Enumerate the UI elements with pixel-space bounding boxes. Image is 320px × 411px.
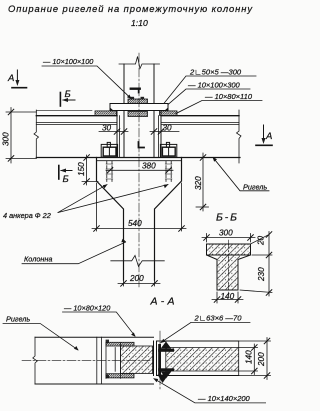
B-B flange (concrete): [207, 244, 251, 255]
column splice weld mark: [131, 87, 140, 89]
svg-text:30: 30: [163, 124, 173, 133]
column centerline: [138, 53, 140, 288]
A-A fishplate end lines: [97, 337, 102, 384]
label Kolonna: [22, 239, 126, 264]
svg-text:20: 20: [257, 235, 266, 246]
A-A joint centerline: [159, 331, 161, 389]
plate corner welds: [110, 108, 168, 111]
left beam top thin line: [36, 110, 92, 112]
label angles 2L63x6-70: [161, 314, 251, 344]
svg-text:540: 540: [128, 219, 142, 228]
svg-text:300: 300: [219, 229, 233, 238]
svg-text:А: А: [265, 131, 272, 142]
dim 30 right gap: [150, 124, 179, 136]
svg-text:Б-Б: Б-Б: [216, 212, 237, 224]
A-A column inner lines: [166, 348, 239, 372]
svg-text:150: 150: [77, 162, 86, 176]
label Rigel bottom: [3, 315, 79, 351]
B-B centerline: [227, 240, 229, 295]
A-A top embedded strip: [106, 342, 134, 346]
A-A dim 140: [239, 344, 258, 375]
svg-text:380: 380: [142, 162, 156, 171]
dim 200 shaft: [118, 274, 160, 286]
A-A column face: [165, 341, 167, 376]
grout strip under plate: [128, 112, 148, 117]
A-A end plate -10x140x200: [154, 341, 157, 376]
B-B dim 300: [202, 229, 255, 243]
right anchor bolt box: [160, 142, 176, 157]
right beam flange bottom double line: [161, 122, 239, 124]
A-A column cut end: [238, 341, 240, 376]
A-A angle cleats (black): [158, 342, 175, 384]
beams bottom / head top line: [36, 157, 240, 159]
svg-text:2∟50×5 —300: 2∟50×5 —300: [189, 68, 242, 77]
svg-text:Опирание ригелей на промежуточ: Опирание ригелей на промежуточную колонн…: [8, 3, 253, 14]
right beam end face: [160, 111, 162, 158]
column faces in gap: [124, 111, 154, 158]
B-B dim 20 and 230: [240, 232, 272, 297]
A-A beam web (concrete): [121, 346, 153, 374]
column shaft break: [111, 256, 165, 267]
label plate -10x100x300: [168, 81, 250, 105]
svg-text:Колонна: Колонна: [24, 255, 52, 264]
left anchor rod (hidden): [106, 161, 113, 182]
main head plate -10x100x300: [110, 104, 168, 111]
A-A dim 200: [239, 338, 271, 380]
right anchor rod (hidden): [165, 161, 172, 182]
A-A column concrete hatch: [166, 348, 239, 372]
svg-text:140: 140: [221, 292, 235, 301]
svg-text:1:10: 1:10: [131, 18, 148, 28]
column head outline: [97, 158, 182, 281]
beam end closure plates: [120, 116, 159, 158]
A-A beam outline: [35, 337, 154, 384]
left anchor bolt box: [101, 142, 117, 157]
dim 540 head width: [92, 183, 186, 231]
section mark A right: [256, 125, 272, 145]
dim 30 left gap: [99, 124, 128, 136]
right beam break line: [237, 110, 242, 163]
top fish plate with bolts: [128, 97, 148, 104]
left beam slab top: [36, 115, 117, 117]
dim 300 left: [2, 108, 37, 164]
label plate -10x100x100: [42, 57, 132, 99]
dim 150 left head: [77, 155, 98, 185]
label Rigel right: [213, 157, 269, 192]
A-A beam centerline: [22, 359, 150, 361]
label plate -10x80x110: [176, 92, 262, 114]
upper column shaft edges: [124, 64, 154, 104]
svg-text:230: 230: [257, 267, 266, 282]
B-B dim 140: [212, 292, 243, 303]
A-A beam break: [33, 337, 37, 384]
svg-text:320: 320: [194, 176, 203, 190]
A-A bottom embedded strip: [106, 374, 134, 378]
upper column break line: [119, 57, 160, 69]
svg-text:Ригель: Ригель: [6, 315, 30, 324]
label plate -10x140x200: [153, 378, 265, 403]
A-A column outer lines: [157, 341, 239, 376]
label angles 2L50x5-300: [161, 68, 256, 108]
dim 380 anchors: [106, 162, 173, 174]
svg-text:4 анкера Ф 22: 4 анкера Ф 22: [3, 211, 51, 220]
left beam break line: [34, 110, 39, 158]
section mark B bottom: [59, 166, 72, 186]
section mark B top: [60, 89, 75, 106]
svg-text:300: 300: [2, 132, 11, 146]
svg-text:— 10×100×100: — 10×100×100: [42, 57, 93, 66]
svg-text:Б: Б: [63, 174, 69, 185]
head bearing line: [97, 160, 182, 162]
svg-text:— 10×80×110: — 10×80×110: [204, 92, 253, 101]
svg-text:— 10×80×120: — 10×80×120: [63, 304, 110, 313]
left beam end face: [116, 111, 118, 158]
svg-text:А-А: А-А: [150, 296, 175, 308]
right beam slab top: [161, 115, 239, 117]
left beam flange bottom double line: [36, 122, 117, 124]
svg-text:140: 140: [245, 350, 254, 364]
A-A weld marks: [106, 340, 109, 344]
svg-text:30: 30: [102, 124, 112, 133]
svg-text:Ригель: Ригель: [243, 183, 267, 192]
svg-text:А: А: [7, 73, 14, 84]
label 4 anchors F22: [3, 184, 169, 220]
svg-text:— 10×100×300: — 10×100×300: [187, 81, 241, 90]
svg-text:— 10×140×200: — 10×140×200: [197, 394, 251, 403]
weld mark L at center: [139, 142, 145, 148]
svg-text:200: 200: [257, 352, 266, 367]
svg-text:2∟63×6 —70: 2∟63×6 —70: [194, 314, 243, 323]
left beam embedded plate: [95, 111, 117, 116]
B-B stem (concrete): [207, 255, 251, 290]
svg-text:200: 200: [129, 274, 144, 283]
dim 320 right: [190, 153, 209, 211]
right beam embedded plate: [160, 111, 178, 116]
section mark A left: [7, 70, 27, 88]
label plate -10x80x120: [63, 304, 136, 337]
